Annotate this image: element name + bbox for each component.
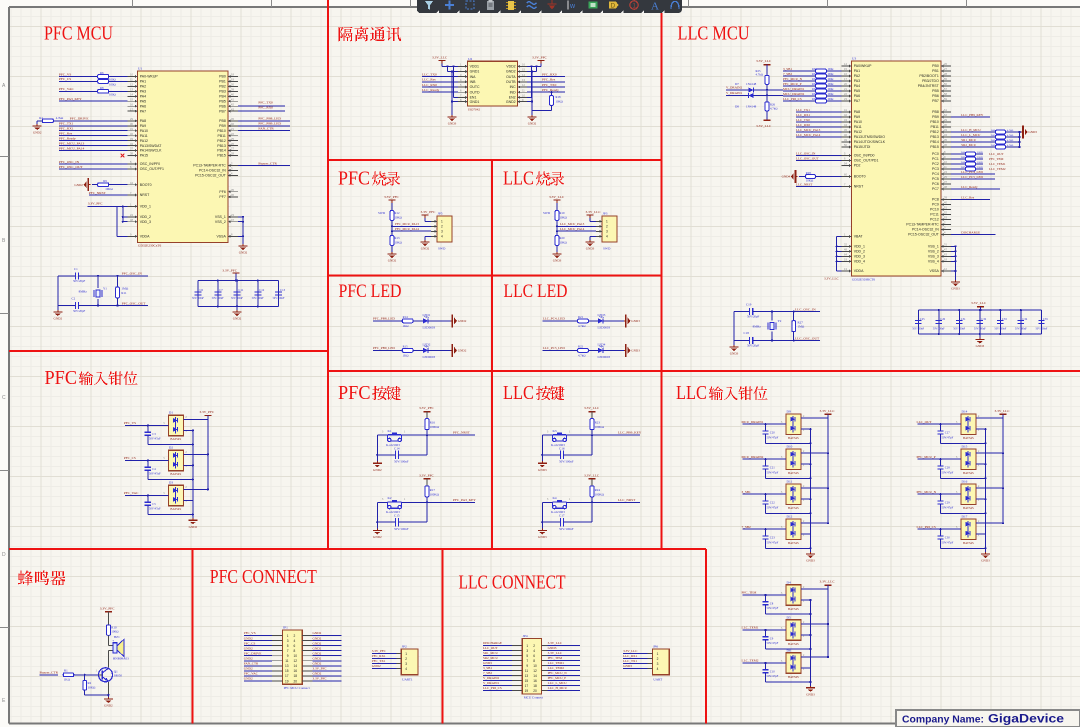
svg-text:VDDA: VDDA xyxy=(140,235,150,239)
node PFC_VS xyxy=(124,421,168,427)
wire clamp pin2 row3 xyxy=(801,522,829,524)
svg-text:D: D xyxy=(611,3,616,10)
ground GND2 at JP xyxy=(421,236,432,250)
svg-text:GND3: GND3 xyxy=(981,559,990,563)
wire clamp pin1 row2 xyxy=(976,498,987,500)
svg-text:GigaDevice: GigaDevice xyxy=(988,714,1064,726)
no-connect PA15 xyxy=(121,154,125,158)
svg-text:GND2: GND2 xyxy=(54,317,63,321)
svg-text:PA15/JTDI: PA15/JTDI xyxy=(854,145,871,149)
node LLC_Res xyxy=(422,78,458,82)
svg-text:C: C xyxy=(2,395,6,401)
svg-text:PFC_NRST: PFC_NRST xyxy=(453,431,471,435)
svg-text:PA8: PA8 xyxy=(854,110,860,114)
svg-text:PB8: PB8 xyxy=(219,119,226,123)
svg-text:GND2: GND2 xyxy=(313,672,322,676)
ground GND3 at JP xyxy=(586,236,597,250)
svg-text:16: 16 xyxy=(294,669,298,673)
svg-text:R17: R17 xyxy=(430,488,436,492)
JP4 left wires xyxy=(483,641,522,690)
diode D16 BAT54S xyxy=(956,480,980,511)
svg-text:PFC_Ready: PFC_Ready xyxy=(542,88,559,92)
svg-text:BAT54S: BAT54S xyxy=(788,436,799,440)
wire clamp pin2 row1 xyxy=(183,453,209,455)
svg-text:50V/20pF: 50V/20pF xyxy=(747,314,760,318)
svg-text:PA8: PA8 xyxy=(140,119,146,123)
svg-text:PFC_MCU_P: PFC_MCU_P xyxy=(917,455,936,459)
svg-text:50V/100nF: 50V/100nF xyxy=(192,297,204,300)
capacitor C29 xyxy=(937,494,986,514)
wire osc top llc xyxy=(771,310,820,312)
svg-text:3_SB1: 3_SB1 xyxy=(483,666,492,670)
svg-text:16: 16 xyxy=(533,679,537,683)
svg-text:SR2_MCU: SR2_MCU xyxy=(961,143,976,147)
ground GND3 burn xyxy=(553,252,562,263)
svg-text:10KΩ: 10KΩ xyxy=(105,187,113,191)
svg-text:C25: C25 xyxy=(920,317,925,321)
resistor R7 100R xyxy=(98,80,128,87)
svg-text:HNB09A03: HNB09A03 xyxy=(113,656,129,660)
node LLC_PC4_LED xyxy=(543,317,578,321)
svg-text:50V/100nF: 50V/100nF xyxy=(394,460,409,464)
wire VDD bus xyxy=(117,205,128,236)
svg-text:GND2: GND2 xyxy=(313,641,322,645)
svg-text:LLC: LLC xyxy=(676,382,707,404)
svg-text:10: 10 xyxy=(533,664,537,668)
power 3.3V_LLC burn xyxy=(549,195,565,210)
svg-text:D5: D5 xyxy=(787,615,791,619)
svg-text:OUTA: OUTA xyxy=(506,75,516,79)
wire GND1 tie xyxy=(448,66,459,115)
svg-text:PFC_OSC_IN: PFC_OSC_IN xyxy=(59,160,80,164)
svg-text:D: D xyxy=(2,552,6,558)
resistor R27 1M xyxy=(792,312,805,341)
svg-text:PFC_MCU_PA14: PFC_MCU_PA14 xyxy=(59,146,85,150)
svg-text:K1: K1 xyxy=(388,429,392,433)
wire clamp busB xyxy=(827,414,829,523)
svg-text:GD32E503RCT6: GD32E503RCT6 xyxy=(852,278,875,282)
diode D11 BAT54S xyxy=(781,480,805,511)
svg-text:D14: D14 xyxy=(962,410,968,414)
svg-text:3_SB1: 3_SB1 xyxy=(742,490,752,494)
node 3_SB1 xyxy=(742,490,787,496)
svg-text:50V/47pF: 50V/47pF xyxy=(942,505,954,509)
node LLC_TX1 xyxy=(796,108,842,112)
svg-text:C33: C33 xyxy=(1002,317,1007,321)
node PFC_TX0 iso xyxy=(527,83,565,87)
svg-text:3.3V_PFC: 3.3V_PFC xyxy=(199,410,215,414)
svg-text:C2: C2 xyxy=(72,297,76,301)
svg-text:R23: R23 xyxy=(595,421,601,425)
svg-text:PA14/JTCK/SWCLK: PA14/JTCK/SWCLK xyxy=(854,140,886,144)
wire clamp pin2 row2 xyxy=(801,656,829,658)
svg-text:3.3V_LLC: 3.3V_LLC xyxy=(584,473,600,477)
svg-text:100KΩ: 100KΩ xyxy=(595,492,605,496)
capacitor C8 xyxy=(762,595,811,615)
svg-text:PB3: PB3 xyxy=(219,90,226,94)
wire clamp pin1 row1 xyxy=(801,634,812,636)
svg-text:PC15-OSC32_OUT: PC15-OSC32_OUT xyxy=(195,174,227,178)
svg-text:BAT54S: BAT54S xyxy=(788,675,799,679)
svg-text:PB12: PB12 xyxy=(217,139,226,143)
wire osc top xyxy=(97,275,148,277)
svg-text:4: 4 xyxy=(533,649,535,653)
node LLC_NRST xyxy=(796,182,842,186)
wire clamp pin2 row1 xyxy=(801,623,829,625)
node PFC_DRIVE xyxy=(69,117,128,121)
svg-text:PFC_VS: PFC_VS xyxy=(124,421,136,425)
U3 left pin stubs xyxy=(842,65,852,273)
svg-text:6: 6 xyxy=(533,654,535,658)
svg-text:7_SB2: 7_SB2 xyxy=(742,525,752,529)
capacitor C19 xyxy=(734,303,772,319)
svg-text:PA9: PA9 xyxy=(140,124,146,128)
svg-text:GND2: GND2 xyxy=(458,319,467,323)
svg-text:LLC_MCU_PA14: LLC_MCU_PA14 xyxy=(796,133,821,137)
svg-text:GND3: GND3 xyxy=(631,349,640,353)
JP4 right wires xyxy=(542,641,581,690)
wire clamp pin1 row0 xyxy=(801,428,812,430)
svg-text:PFC: PFC xyxy=(338,168,370,190)
svg-text:15: 15 xyxy=(285,669,289,673)
wire clamp pin1 row3 xyxy=(801,533,811,535)
wire clamp pin2 row0 xyxy=(801,417,828,419)
wire EN2 tie xyxy=(527,65,533,97)
svg-text:C3: C3 xyxy=(152,432,156,436)
svg-text:LLC_Ready: LLC_Ready xyxy=(422,88,440,92)
svg-text:12: 12 xyxy=(533,669,537,673)
svg-text:BAT54S: BAT54S xyxy=(170,437,181,441)
node LLC_TX0 xyxy=(796,118,842,122)
node PFC_MCU_PA13 xyxy=(392,222,431,226)
ground GND2 at BOOT0 xyxy=(74,178,90,191)
svg-text:PFC_TEM: PFC_TEM xyxy=(742,591,757,595)
svg-text:2: 2 xyxy=(606,225,608,229)
resistor array R44-R47 100R xyxy=(951,151,1006,171)
U3 pin numbers xyxy=(844,62,947,271)
node LLC_RX1 xyxy=(796,113,842,117)
resistor R2 10k xyxy=(83,675,109,695)
svg-text:3.3V_LLC: 3.3V_LLC xyxy=(623,649,638,653)
svg-text:4.7kΩ: 4.7kΩ xyxy=(578,324,586,328)
power 3.3V_PFC buzzer xyxy=(100,606,116,625)
svg-text:PC11: PC11 xyxy=(930,213,939,217)
svg-text:GND2: GND2 xyxy=(244,646,253,650)
svg-text:BAT54S: BAT54S xyxy=(788,642,799,646)
resistor R28 10k boot xyxy=(799,171,842,183)
wire clamp pin2 row0 xyxy=(801,588,828,590)
svg-text:PA15: PA15 xyxy=(140,154,148,158)
svg-text:PA5: PA5 xyxy=(854,89,860,93)
svg-text:PA9: PA9 xyxy=(854,115,860,119)
power 3.3V_PFC at JP xyxy=(421,210,437,221)
svg-text:3.3V_LLC: 3.3V_LLC xyxy=(584,406,600,410)
node PFC_TEM xyxy=(742,591,787,597)
svg-text:JP1: JP1 xyxy=(283,626,288,630)
svg-text:LLC_RX1: LLC_RX1 xyxy=(623,654,637,658)
svg-text:PFC_CS: PFC_CS xyxy=(244,641,256,645)
node PFC_VAC xyxy=(59,87,98,91)
svg-text:50V/47pF: 50V/47pF xyxy=(149,472,161,476)
svg-text:NRST: NRST xyxy=(140,193,150,197)
svg-text:C14: C14 xyxy=(394,446,400,450)
wire clamp pin1 row0 xyxy=(976,428,987,430)
capacitor C4 xyxy=(145,460,194,480)
svg-text:PC10: PC10 xyxy=(930,208,939,212)
svg-text:SWD: SWD xyxy=(378,211,386,215)
svg-text:PFC_RX1: PFC_RX1 xyxy=(372,654,386,658)
svg-text:VDDA: VDDA xyxy=(854,269,864,273)
svg-text:C23: C23 xyxy=(770,536,776,540)
power 3.3V_LLC key xyxy=(584,473,600,486)
U1 left pin names xyxy=(140,75,164,239)
svg-text:C27: C27 xyxy=(945,431,951,435)
svg-text:OUTC: OUTC xyxy=(470,85,480,89)
power 3.3V_LLC iso xyxy=(432,56,458,68)
svg-text:K2: K2 xyxy=(388,496,392,500)
svg-text:U1: U1 xyxy=(138,67,142,71)
ground GND3 at U3 xyxy=(951,280,960,291)
svg-text:3.3V_LLC: 3.3V_LLC xyxy=(756,124,772,128)
svg-text:LLC_OSC_IN: LLC_OSC_IN xyxy=(795,307,816,311)
svg-text:PA7: PA7 xyxy=(854,99,860,103)
power 3.3V_PFC key xyxy=(419,406,435,419)
svg-text:19: 19 xyxy=(525,689,529,693)
svg-text:PB15: PB15 xyxy=(930,145,939,149)
svg-text:C12: C12 xyxy=(259,288,265,292)
svg-text:C5: C5 xyxy=(152,502,156,506)
svg-text:PFC_RX1: PFC_RX1 xyxy=(59,127,74,131)
svg-text:18: 18 xyxy=(533,684,537,688)
JP6 wires xyxy=(623,649,648,668)
switch K3 xyxy=(542,429,592,447)
svg-text:50V/100nF: 50V/100nF xyxy=(559,460,574,464)
capacitor C14 xyxy=(376,435,427,463)
svg-text:MCU_DRAIN1: MCU_DRAIN1 xyxy=(742,420,764,424)
node LLC_RX0 xyxy=(796,123,842,127)
svg-text:C26: C26 xyxy=(940,317,945,321)
svg-text:OSC_OUT/PF1: OSC_OUT/PF1 xyxy=(140,167,164,171)
U1 left pin stubs xyxy=(128,75,138,238)
svg-text:SWD: SWD xyxy=(438,247,446,251)
svg-text:10KΩ: 10KΩ xyxy=(395,215,403,219)
svg-text:D11: D11 xyxy=(787,480,793,484)
node LLC_PC5_LED xyxy=(543,346,578,350)
svg-text:LLC_OSC_IN: LLC_OSC_IN xyxy=(796,151,816,155)
svg-text:D4: D4 xyxy=(787,580,791,584)
svg-text:BZ1: BZ1 xyxy=(114,635,120,639)
svg-text:GND2: GND2 xyxy=(313,631,322,635)
svg-text:17: 17 xyxy=(285,674,289,678)
node PFC_OSC_OUT label2 xyxy=(122,301,147,305)
svg-text:GND3: GND3 xyxy=(483,661,492,665)
node PFC_MCU_PA14 xyxy=(392,227,431,231)
svg-text:LLC_PC4_LED: LLC_PC4_LED xyxy=(543,317,566,321)
svg-text:PFC_TX1: PFC_TX1 xyxy=(372,659,386,663)
svg-text:C4: C4 xyxy=(152,467,156,471)
svg-text:50V/47pF: 50V/47pF xyxy=(767,470,779,474)
svg-text:PFC_NRST: PFC_NRST xyxy=(89,191,107,195)
svg-text:BOOT0: BOOT0 xyxy=(140,183,152,187)
ground GND3 clamp xyxy=(981,548,990,562)
wire clamp pin2 row0 xyxy=(976,417,1003,419)
svg-text:3.3V_PFC: 3.3V_PFC xyxy=(421,210,437,214)
svg-text:VDD_4: VDD_4 xyxy=(854,260,865,264)
svg-text:PFC_MCU_N: PFC_MCU_N xyxy=(548,671,568,675)
svg-text:PA0/WKUP: PA0/WKUP xyxy=(854,64,872,68)
wire emitter xyxy=(107,682,109,697)
svg-text:GND2: GND2 xyxy=(239,251,248,255)
svg-text:50V/47pF: 50V/47pF xyxy=(767,606,779,610)
svg-text:PA11: PA11 xyxy=(854,125,862,129)
svg-text:BAT54S: BAT54S xyxy=(788,607,799,611)
svg-text:50V/47pF: 50V/47pF xyxy=(942,540,954,544)
svg-text:OSC_OUT/PD1: OSC_OUT/PD1 xyxy=(854,159,879,163)
svg-text:GND2: GND2 xyxy=(313,651,322,655)
svg-text:PA12: PA12 xyxy=(854,130,862,134)
svg-text:GND2: GND2 xyxy=(373,535,382,539)
svg-text:PFC_DRIVE: PFC_DRIVE xyxy=(244,651,262,655)
svg-text:3: 3 xyxy=(526,649,528,653)
svg-text:PFC_OSC_OUT: PFC_OSC_OUT xyxy=(122,301,147,305)
svg-text:LLC_TX1: LLC_TX1 xyxy=(623,659,637,663)
U2 pin numbers xyxy=(460,63,525,102)
svg-text:R11: R11 xyxy=(121,291,127,295)
power 3.3V_PFC iso xyxy=(527,56,548,68)
svg-text:1N4148: 1N4148 xyxy=(746,82,757,86)
ground GND2 clamp xyxy=(188,515,197,529)
node PFC_TX0 xyxy=(238,101,285,107)
svg-text:PB11: PB11 xyxy=(217,134,225,138)
wire clamp pin1 row1 xyxy=(183,464,194,466)
svg-text:LLC_TX1: LLC_TX1 xyxy=(796,108,810,112)
svg-text:LLC_OUT: LLC_OUT xyxy=(917,420,933,424)
connector JP5 SWD xyxy=(431,212,452,251)
svg-text:PF6: PF6 xyxy=(219,190,225,194)
svg-text:GND2: GND2 xyxy=(313,656,322,660)
svg-text:PFC_PB9_LED: PFC_PB9_LED xyxy=(373,346,395,350)
svg-text:GND3: GND3 xyxy=(951,287,960,291)
capacitor C2 xyxy=(58,297,148,313)
svg-text:PA13/SWDAT: PA13/SWDAT xyxy=(140,144,163,148)
svg-text:INA: INA xyxy=(470,75,477,79)
ground GND3 right xyxy=(1021,126,1037,139)
node PFC_Ready iso xyxy=(527,88,565,92)
svg-text:K4: K4 xyxy=(553,496,557,500)
node LLC_Ready xyxy=(951,185,1000,189)
node PFC_RX0 iso xyxy=(527,72,565,76)
svg-text:PFC_TX0: PFC_TX0 xyxy=(258,101,273,105)
node PFC_MCU_P xyxy=(917,455,962,461)
svg-text:GND3: GND3 xyxy=(806,692,815,696)
svg-text:50V/47pF: 50V/47pF xyxy=(942,435,954,439)
svg-text:50V/100nF: 50V/100nF xyxy=(559,527,574,531)
svg-text:GND3: GND3 xyxy=(538,535,547,539)
svg-text:3_SB1: 3_SB1 xyxy=(783,67,792,71)
diode D15 BAT54S xyxy=(956,445,980,476)
svg-text:GND1: GND1 xyxy=(470,70,480,74)
svg-text:FAN_CTR: FAN_CTR xyxy=(258,127,274,131)
resistor R17 100k xyxy=(425,486,440,503)
svg-text:GND2: GND2 xyxy=(313,646,322,650)
svg-text:PFC MCU Connect: PFC MCU Connect xyxy=(284,686,310,690)
svg-text:9: 9 xyxy=(287,654,289,658)
svg-text:GND3: GND3 xyxy=(448,122,457,126)
svg-text:SR1_MCU: SR1_MCU xyxy=(483,651,498,655)
svg-text:A: A xyxy=(651,1,659,13)
svg-text:PB6: PB6 xyxy=(932,94,939,98)
power 3.3V_LLC clamp xyxy=(820,409,836,418)
svg-text:LLC_TX0: LLC_TX0 xyxy=(422,72,437,76)
node PFC_RX0 xyxy=(238,106,285,111)
svg-text:PFC_VAC: PFC_VAC xyxy=(244,672,259,676)
svg-text:D3: D3 xyxy=(169,481,173,485)
svg-text:4: 4 xyxy=(441,235,443,239)
svg-text:OUTD: OUTD xyxy=(470,90,480,94)
JP4 pin numbers xyxy=(525,644,537,693)
svg-text:3.3V_LLC: 3.3V_LLC xyxy=(548,641,563,645)
svg-text:10KΩ: 10KΩ xyxy=(560,240,568,244)
svg-text:1: 1 xyxy=(441,220,443,224)
svg-text:VSS_1: VSS_1 xyxy=(215,215,226,219)
power 3.3V_LLC at VDD xyxy=(824,277,840,281)
svg-text:GND3: GND3 xyxy=(586,247,595,251)
svg-text:PA3: PA3 xyxy=(140,90,146,94)
svg-text:10KΩ: 10KΩ xyxy=(560,215,568,219)
svg-text:GND2: GND2 xyxy=(189,525,198,529)
connector JP2 UART1 xyxy=(396,645,418,682)
svg-text:PB8: PB8 xyxy=(932,110,939,114)
svg-text:PB4/JNTRST: PB4/JNTRST xyxy=(918,84,940,88)
svg-text:C7: C7 xyxy=(219,288,223,292)
svg-text:V_DRAIN1: V_DRAIN1 xyxy=(726,91,742,95)
svg-text:LLC_MCU_PA14: LLC_MCU_PA14 xyxy=(560,227,585,231)
svg-text:C19: C19 xyxy=(746,303,752,307)
svg-text:PA2: PA2 xyxy=(140,85,146,89)
svg-text:LLC_TEM1: LLC_TEM1 xyxy=(989,162,1006,166)
svg-text:PC0: PC0 xyxy=(932,152,939,156)
svg-text:50V/47pF: 50V/47pF xyxy=(149,507,161,511)
crystal Y2 8MHz xyxy=(753,312,782,341)
resistor array R40-R43 4.7k xyxy=(951,128,1021,149)
svg-text:PB5: PB5 xyxy=(219,99,226,103)
diode D9 BAT54S xyxy=(781,410,805,441)
resistor R21 4.7kΩ xyxy=(578,315,598,328)
diode D1 BAT54S xyxy=(163,411,187,442)
node PFC_CS xyxy=(59,77,98,81)
svg-text:10KΩ: 10KΩ xyxy=(395,240,403,244)
svg-text:100Ω: 100Ω xyxy=(109,83,117,87)
svg-text:C8: C8 xyxy=(770,602,774,606)
svg-text:VSS_4: VSS_4 xyxy=(928,260,939,264)
svg-text:D1: D1 xyxy=(169,411,173,415)
svg-text:SR1_MCU: SR1_MCU xyxy=(961,138,976,142)
diode D12 BAT54S xyxy=(781,515,805,546)
svg-text:PC4: PC4 xyxy=(932,172,939,176)
svg-text:GND2: GND2 xyxy=(506,100,516,104)
svg-text:PB2/BOOT1: PB2/BOOT1 xyxy=(919,74,939,78)
power 3.3V_PFC burn xyxy=(384,195,400,210)
svg-text:D17: D17 xyxy=(962,515,968,519)
svg-text:MCU_DRAIN1: MCU_DRAIN1 xyxy=(783,87,805,91)
svg-text:PA0-WKUP: PA0-WKUP xyxy=(140,75,159,79)
node Buzzer_CTR xyxy=(238,161,290,165)
svg-text:3.3V_LLC: 3.3V_LLC xyxy=(756,59,772,63)
svg-text:Y1: Y1 xyxy=(103,287,107,291)
svg-text:PA2: PA2 xyxy=(854,74,860,78)
svg-text:3: 3 xyxy=(287,639,289,643)
svg-text:1: 1 xyxy=(526,644,528,648)
